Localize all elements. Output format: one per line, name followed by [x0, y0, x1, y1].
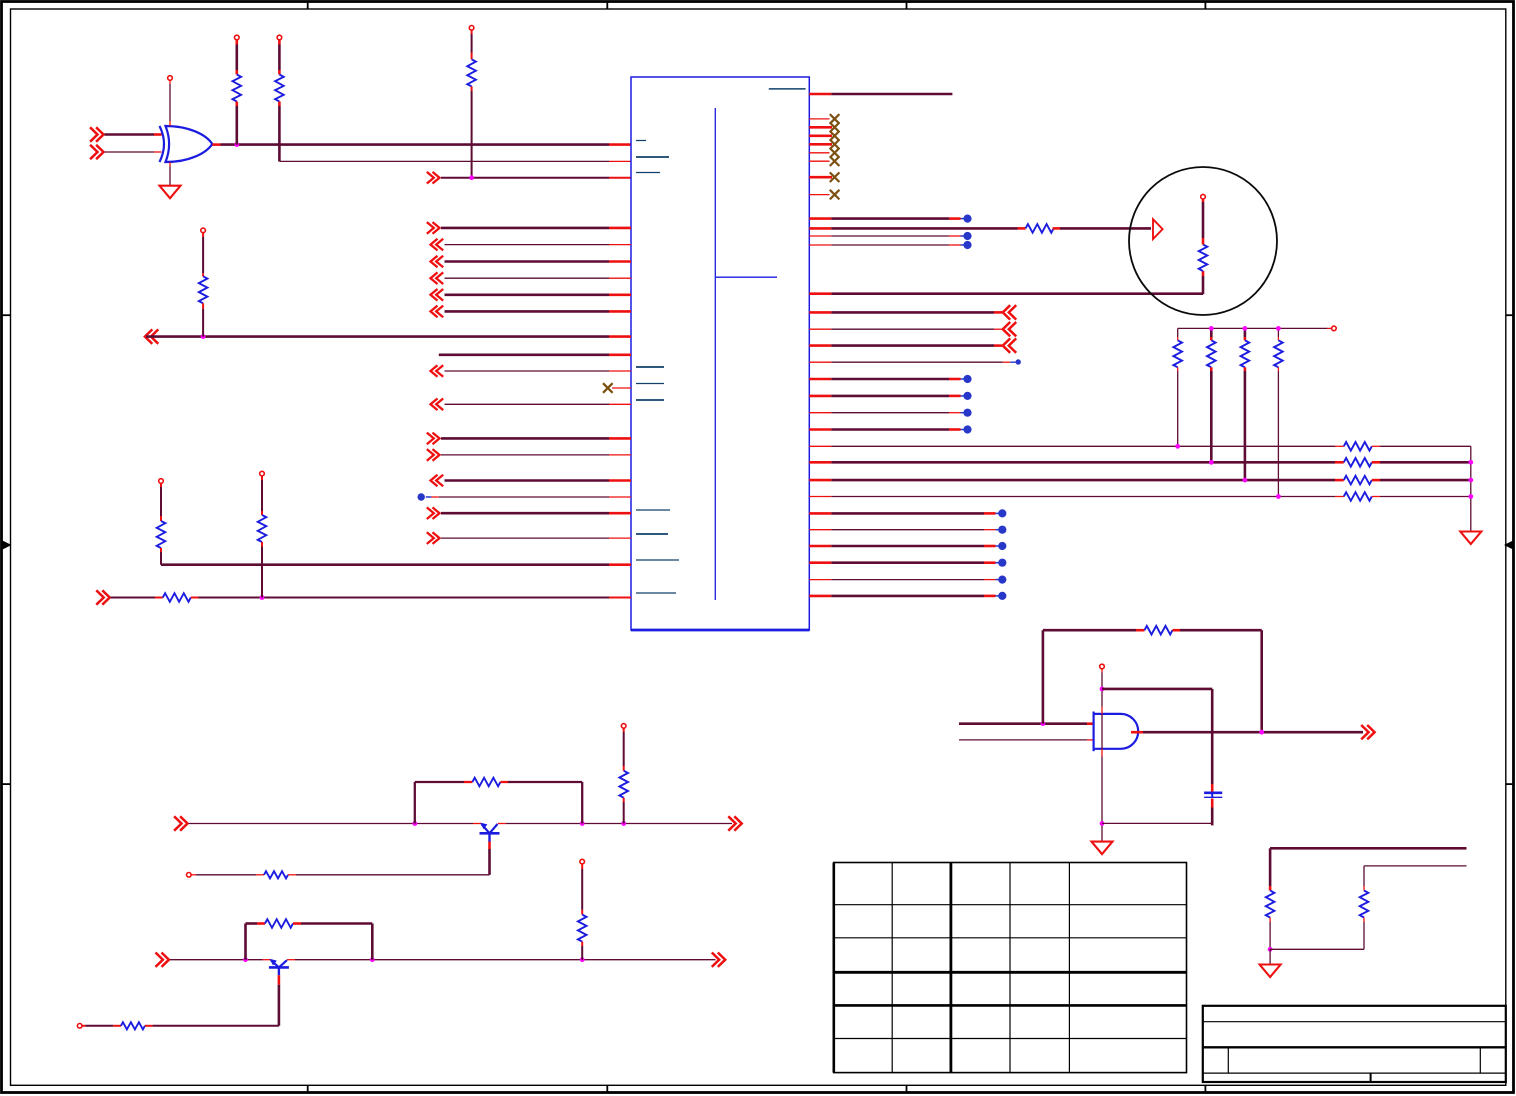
power pin [187, 873, 192, 878]
pin label [636, 383, 664, 385]
junction [1276, 326, 1281, 331]
wire [488, 842, 491, 850]
wire pin45 bus1 [809, 445, 831, 447]
wire [261, 476, 263, 480]
wire pin44 [809, 428, 831, 431]
port arrow + wire pin8 [431, 289, 438, 301]
wire [1210, 367, 1213, 371]
wire [278, 102, 281, 107]
wire [160, 548, 162, 552]
power pin [621, 724, 626, 729]
port arrow + wire pin4 [433, 222, 440, 234]
wire [1173, 629, 1181, 632]
wire [160, 483, 162, 487]
wire pin23 [809, 93, 831, 96]
capacitor C1 [1204, 791, 1222, 794]
wire [169, 162, 171, 167]
input port arrow B [96, 145, 103, 159]
node stub pin40 [809, 361, 831, 363]
ground [1260, 965, 1281, 978]
wire pin46 bus2 [809, 461, 831, 464]
port arrow + wire pin39 [809, 344, 831, 347]
power pin [201, 228, 206, 233]
wire pin34 [809, 235, 831, 237]
input port arrow [433, 172, 440, 184]
revision table [834, 863, 1187, 1073]
port arrow + wire pin6 [431, 256, 438, 268]
power pin of U1 [168, 76, 173, 81]
wire pin54 [809, 595, 831, 598]
wire [1177, 367, 1179, 371]
wire [105, 133, 155, 136]
wire [170, 959, 246, 961]
wire pin43 [809, 412, 831, 414]
junction [370, 957, 375, 962]
resistor RN3 [1241, 340, 1250, 367]
power pin [277, 35, 282, 40]
port arrow + wire pin17 [431, 475, 438, 487]
wire [278, 40, 281, 45]
wire [1372, 445, 1380, 447]
wire [959, 722, 1087, 725]
wire [278, 975, 281, 985]
power pin [1100, 664, 1105, 669]
wire [287, 959, 295, 961]
input port arrow [102, 590, 109, 604]
power pin [580, 859, 585, 864]
wire [145, 1025, 153, 1027]
no-connect pin24 [809, 118, 829, 120]
wire [105, 151, 155, 153]
junction [1259, 730, 1264, 735]
junction [1100, 821, 1105, 826]
wire [581, 942, 583, 946]
wire [498, 823, 506, 825]
wire [1277, 328, 1279, 337]
wire pin50 [809, 529, 831, 531]
node stub pin18 [418, 493, 425, 500]
wire pin33 [809, 227, 831, 230]
resistor R6 [163, 593, 191, 602]
wire [1244, 328, 1247, 337]
and gate U3 [1094, 714, 1139, 749]
junction [234, 142, 239, 147]
resistor R16 [1360, 891, 1369, 918]
wire [236, 102, 239, 107]
junction [1041, 721, 1046, 726]
port arrow + wire pin12 [431, 365, 438, 377]
pin label [769, 88, 806, 90]
power pin [235, 35, 240, 40]
output port arrow [718, 953, 725, 967]
port arrow + wire pin20 [433, 532, 440, 544]
no-connect pin28 [809, 152, 829, 154]
ground [1092, 842, 1113, 855]
no-connect pin31 [809, 194, 829, 196]
resistor R13 [1344, 492, 1372, 501]
resistor R4 [199, 276, 208, 303]
wire [1211, 799, 1214, 808]
wire pin51 [809, 545, 831, 548]
power pin [77, 1024, 82, 1029]
wire [1202, 238, 1205, 245]
title block [1203, 1006, 1506, 1082]
resistor R18 [264, 871, 288, 878]
wire [202, 303, 204, 309]
wire [1053, 227, 1060, 230]
no-connect pin27 [809, 143, 832, 146]
wire pin52 [809, 561, 831, 564]
wire [288, 874, 296, 876]
wire [293, 922, 301, 925]
resistor R22 [578, 915, 587, 942]
power pin [159, 479, 164, 484]
wire [1202, 271, 1205, 276]
output port arrow [1367, 725, 1374, 739]
junction [580, 821, 585, 826]
wire [261, 542, 263, 547]
resistor RN1 [1173, 340, 1182, 367]
junction [1468, 494, 1473, 499]
wire [82, 1025, 86, 1027]
wire power rail [1178, 327, 1327, 329]
junction [1209, 460, 1214, 465]
ground [160, 186, 181, 199]
wire pin36 [809, 292, 831, 295]
wire [1470, 446, 1472, 531]
open arrow [1153, 219, 1163, 239]
wire [1244, 367, 1247, 371]
transistor Q1 [482, 824, 490, 833]
port arrow + wire pin7 [431, 272, 438, 284]
junction [243, 957, 248, 962]
resistor R5 [157, 521, 166, 548]
resistor R19 [619, 771, 628, 798]
junction [1100, 687, 1105, 692]
pin label [636, 592, 676, 594]
resistor R10 [1344, 442, 1372, 451]
resistor R12 [1344, 476, 1372, 485]
wire pin49 [809, 512, 831, 515]
wire [1372, 496, 1380, 498]
wire pin48 bus4 [809, 496, 831, 498]
wire [1372, 479, 1380, 482]
wire [191, 597, 199, 599]
resistor R14 [1145, 626, 1173, 635]
pin label [636, 399, 664, 401]
wire [1210, 328, 1213, 337]
wire [202, 233, 204, 237]
wire [169, 81, 171, 85]
wire pin47 bus3 [809, 479, 831, 482]
wire [1270, 847, 1466, 850]
wire [581, 864, 583, 869]
ic U2 [631, 77, 809, 630]
power pin [1332, 326, 1337, 331]
wire [1269, 918, 1271, 923]
wire [959, 739, 1087, 741]
wire pin21 [161, 563, 609, 566]
junction [412, 821, 417, 826]
input port arrow A [96, 127, 103, 141]
resistor R11 [1344, 458, 1372, 467]
output port arrow [145, 329, 152, 343]
junction [1243, 326, 1248, 331]
resistor R3 [467, 59, 476, 86]
wire [191, 874, 196, 876]
junction [1243, 478, 1248, 483]
pin label [636, 533, 668, 535]
pin label [636, 172, 660, 174]
resistor R21 [121, 1022, 145, 1029]
wire pin42 [809, 395, 831, 398]
wire pin41 [809, 378, 831, 381]
no-connect pin29 [809, 160, 829, 162]
wire [441, 177, 609, 179]
port arrow + wire pin14 [431, 399, 438, 411]
junction [1276, 494, 1281, 499]
wire feedback [1042, 630, 1045, 724]
junction [621, 821, 626, 826]
pin label [636, 140, 646, 142]
power pin [260, 471, 265, 476]
no-connect pin13 [612, 387, 631, 389]
port arrow + wire pin16 [433, 449, 440, 461]
wire [471, 86, 473, 91]
junction [1468, 460, 1473, 465]
port arrow + wire pin37 [809, 311, 831, 314]
wire [1269, 949, 1271, 964]
resistor R9 [1199, 245, 1208, 272]
junction [1209, 326, 1214, 331]
wire pin32 [809, 217, 831, 220]
resistor R17 [472, 778, 500, 787]
junction [469, 175, 474, 180]
wire [1270, 948, 1364, 950]
wire [189, 823, 415, 825]
wire loop [244, 924, 247, 960]
junction [1268, 947, 1273, 952]
pin label [636, 156, 669, 158]
port arrow + wire pin9 [431, 306, 438, 318]
pin label [636, 509, 670, 511]
wire [1177, 328, 1179, 337]
wire [1101, 669, 1103, 673]
wire [111, 597, 156, 599]
junction [260, 595, 265, 600]
port arrow + wire pin5 [431, 239, 438, 251]
junction [580, 957, 585, 962]
wire [279, 160, 609, 162]
wire [1363, 918, 1365, 923]
wire [1102, 688, 1212, 691]
resistor RN2 [1207, 340, 1216, 367]
wire pin35 [809, 244, 831, 246]
wire [1372, 461, 1380, 464]
ground [1460, 532, 1481, 545]
resistor R15 [1266, 891, 1275, 918]
wire [500, 781, 508, 783]
junction [1468, 478, 1473, 483]
wire pin53 [809, 579, 831, 581]
wire [623, 728, 625, 732]
junction [201, 334, 206, 339]
no-connect pin26 [809, 135, 832, 138]
resistor R2 [275, 75, 284, 102]
power pin [469, 26, 474, 31]
port arrow + wire pin15 [433, 433, 440, 445]
wire [236, 40, 239, 45]
annotation circle [1129, 167, 1277, 315]
input port arrow [180, 816, 187, 830]
port arrow + wire pin38 [809, 328, 831, 330]
no-connect pin25 [809, 126, 832, 129]
wire [623, 798, 625, 802]
no-connect pin30 [809, 176, 832, 179]
pin label [636, 559, 679, 561]
resistor RN4 [1274, 340, 1283, 367]
wire loop [414, 782, 416, 824]
pin label [636, 366, 664, 368]
xor gate U1 [160, 126, 165, 162]
wire pin11 [439, 353, 609, 356]
resistor R7 [258, 515, 267, 542]
resistor R8 [1026, 224, 1054, 233]
wire [1277, 367, 1279, 371]
transistor Q2 [271, 960, 279, 967]
wire output [1131, 731, 1143, 734]
resistor R1 [233, 75, 242, 102]
output port arrow [734, 816, 741, 830]
wire [146, 335, 609, 338]
power pin [1201, 194, 1206, 199]
wire [1364, 865, 1467, 867]
port arrow + wire pin19 [433, 507, 440, 519]
resistor R20 [265, 919, 293, 928]
wire [212, 143, 220, 146]
junction [1175, 444, 1180, 449]
wire [471, 30, 473, 34]
input port arrow [162, 953, 169, 967]
